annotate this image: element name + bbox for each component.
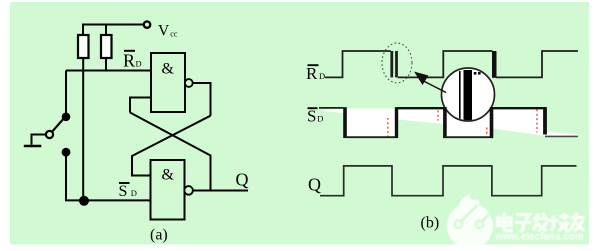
wire down to switch upper contact	[65, 71, 67, 115]
Q waveform	[320, 166, 577, 196]
SD fall bar 1	[343, 107, 347, 138]
watermark CJK text you	[571, 213, 585, 232]
label RD (timing)	[306, 64, 325, 83]
beam sliver right of SD fall 3	[547, 132, 578, 137]
RD wire to gate 1	[66, 70, 151, 72]
cross wire A (G2 out to G1 in)	[130, 113, 211, 191]
svg-text:www.elecfans.com: www.elecfans.com	[495, 232, 584, 243]
beam wedge under SD high 3	[491, 109, 546, 136]
G2 output wire to Q	[193, 190, 248, 192]
svg-text:D: D	[136, 59, 142, 69]
svg-text:(a): (a)	[150, 227, 168, 244]
svg-text:S: S	[307, 107, 316, 126]
svg-text:V: V	[158, 23, 170, 40]
resistor R2	[101, 35, 112, 58]
overline RD circuit	[124, 50, 135, 52]
svg-text:R: R	[306, 64, 318, 83]
magnified pulse bar	[464, 70, 473, 123]
SD rise bar 2	[395, 107, 398, 138]
watermark CJK text zi	[515, 215, 532, 232]
svg-text:D: D	[319, 71, 325, 81]
wire R1 bottom down to SD junction	[82, 58, 84, 201]
RD glitch caps	[390, 51, 392, 77]
overline SD circuit	[119, 182, 130, 184]
beam wedge under SD high 2	[396, 109, 446, 124]
junction dot	[79, 196, 89, 206]
overline RD	[308, 64, 319, 66]
SD rise bar 3	[490, 107, 494, 138]
arrow head	[414, 72, 429, 86]
label SD (timing)	[307, 107, 323, 126]
watermark CJK text dian	[498, 213, 513, 231]
svg-text:Q: Q	[308, 175, 321, 195]
red dotted line 1	[387, 118, 389, 137]
resistor R1	[78, 35, 89, 58]
SD low line 3	[545, 135, 578, 137]
wire R2 bottom lead	[105, 58, 107, 71]
G1 output wire	[193, 83, 211, 116]
svg-text:&: &	[162, 167, 175, 184]
Vcc top wire	[83, 25, 144, 36]
svg-text:R: R	[123, 51, 135, 71]
G1 input2 wire	[130, 98, 151, 113]
NAND gate G2	[151, 160, 185, 220]
wire lower contact to SD line	[66, 152, 151, 200]
SD low box 2	[443, 109, 493, 137]
svg-text:(b): (b)	[421, 215, 440, 232]
switch upper contact dot	[62, 113, 71, 122]
SD high 3	[491, 107, 546, 109]
ground	[24, 145, 42, 148]
svg-text:cc: cc	[170, 30, 178, 39]
watermark CJK text fa	[533, 213, 548, 231]
G2 bubble	[184, 186, 193, 195]
SD low line 2	[443, 136, 493, 138]
G1 bubble	[185, 79, 193, 87]
red dotted line 3	[486, 128, 488, 136]
switch lower contact dot	[62, 148, 71, 157]
cross wire B (G1 out to G2 in)	[132, 116, 211, 176]
overline SD	[308, 107, 318, 109]
SD low line 1	[345, 136, 397, 138]
logo trace line	[462, 205, 478, 221]
logo pad 1	[455, 220, 463, 228]
SD low box 1	[344, 109, 398, 138]
switch pole circle	[46, 131, 53, 138]
svg-text:D: D	[317, 114, 323, 124]
arrow line	[425, 82, 447, 93]
svg-text:Q: Q	[236, 170, 249, 190]
RD thick fall bar	[492, 51, 497, 78]
svg-text:D: D	[131, 188, 137, 198]
SD fall bar 2	[443, 107, 447, 138]
logo circle	[447, 203, 493, 249]
SD high 2	[397, 107, 447, 109]
logo leaf	[459, 194, 479, 214]
resistor R2 top lead	[105, 25, 107, 36]
RD waveform	[325, 51, 578, 77]
dashed ellipse highlight	[382, 43, 412, 83]
magnified pulse thin edge	[459, 71, 461, 120]
SD waveform high 1	[319, 107, 343, 109]
wire pole to ground	[32, 135, 46, 145]
Vcc terminal	[144, 21, 150, 27]
switch lever	[51, 118, 65, 133]
watermark CJK text shao	[549, 213, 570, 231]
red dotted line 4	[536, 110, 538, 133]
SD fall bar 4	[543, 107, 547, 134]
red dotted line 2	[437, 111, 439, 121]
beam sliver left of SD fall	[321, 109, 343, 114]
NAND gate G1	[151, 53, 185, 112]
logo pad 2	[476, 220, 484, 228]
svg-text:&: &	[162, 61, 175, 78]
svg-text:S: S	[119, 183, 128, 200]
magnified pulse dots	[474, 72, 477, 75]
